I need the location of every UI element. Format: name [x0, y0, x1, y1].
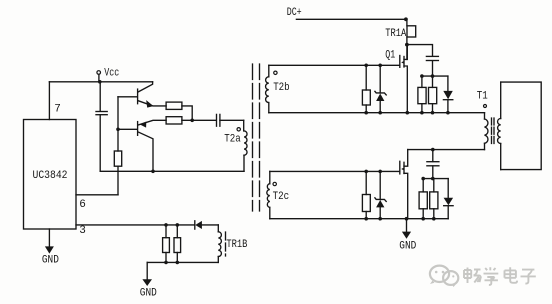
svg-text:T1: T1: [477, 91, 488, 103]
transformer TR1 core dashed line: [225, 232, 227, 256]
svg-text:TR1A: TR1A: [385, 28, 406, 40]
capacitor C1 Vcc decoupling: [96, 82, 107, 172]
svg-text:GND: GND: [42, 255, 59, 267]
wire TR1B bottom return: [147, 261, 218, 263]
transformer winding T2c: [267, 171, 270, 218]
wire mid rail Q2 drain to T1: [408, 149, 485, 151]
zener diode Z2 gate lower: [375, 171, 386, 218]
transformer winding TR1B: [218, 225, 221, 263]
node dot R6 bottom: [164, 261, 168, 265]
transformer T1 core dashed lines: [492, 118, 495, 144]
svg-text:T2c: T2c: [273, 191, 290, 203]
ground right section: [399, 219, 416, 253]
svg-text:DC+: DC+: [287, 7, 302, 19]
resistor R10 gate upper: [362, 65, 370, 112]
node T2a phase dot: [237, 128, 240, 131]
wire snubber2 top bar: [423, 178, 448, 180]
node DC+ junction dot: [404, 17, 408, 21]
transistor Q4 PNP lower driver: [138, 120, 167, 171]
svg-text:T2b: T2b: [273, 82, 290, 94]
node T1 phase dot: [484, 105, 487, 108]
wire lower base: [118, 128, 137, 130]
node snubber2 dot left: [421, 177, 425, 181]
resistor R3 base feed: [114, 97, 121, 195]
wire pin3 line: [76, 224, 194, 226]
svg-text:UC3842: UC3842: [33, 170, 68, 182]
svg-text:GND: GND: [399, 241, 416, 253]
node dots gate2 line: [364, 170, 382, 174]
op-amp U1 UC3842 controller IC box: [24, 120, 77, 230]
wire Vcc rail: [49, 81, 152, 83]
wire Vcc stub: [98, 74, 100, 81]
node dots gate line: [364, 64, 382, 68]
node dots lower rail: [364, 217, 435, 221]
resistor R5 lower drive: [166, 117, 216, 124]
transformer winding T2a primary: [244, 120, 247, 171]
wire lower ground rail: [270, 218, 448, 220]
transformer winding T1 secondary: [498, 82, 501, 170]
wire Q2 gate line: [270, 170, 400, 172]
node PNP collector dot on rail: [151, 170, 155, 174]
capacitor C4 snubber lower: [427, 150, 439, 179]
wire upper base: [118, 96, 137, 98]
zener diode Z1 gate upper: [375, 65, 386, 112]
svg-text:TR1B: TR1B: [226, 239, 247, 251]
capacitor C2 series coupling: [217, 114, 244, 126]
node drive junction dot: [190, 119, 194, 123]
transformer T2 core dashed lines: [253, 64, 260, 211]
node mid rail cap dot: [431, 148, 435, 152]
decorative watermark icon: [430, 266, 458, 287]
resistor R4 upper drive: [166, 102, 192, 120]
ground under TR1B return: [140, 262, 157, 299]
node T2c phase dot: [273, 182, 276, 185]
svg-text:6: 6: [79, 199, 86, 211]
diode D3 snubber lower: [444, 179, 454, 219]
transistor Q2 N-MOSFET lower: [400, 150, 408, 219]
svg-text:Q1: Q1: [385, 50, 395, 62]
diode D1 on pin3 line: [195, 221, 219, 229]
decorative watermark text: [464, 267, 536, 285]
wire bottom rail of driver to T2a: [100, 170, 244, 172]
resistor TR1A current sense primary: [407, 19, 416, 59]
svg-text:GND: GND: [140, 288, 157, 300]
resistor R8 snubber: [418, 76, 426, 113]
resistor R11 gate lower: [362, 171, 370, 218]
node dots upper rail: [364, 111, 449, 115]
node snubber dot left: [420, 74, 424, 78]
wire Q1 gate line: [269, 64, 400, 66]
svg-text:3: 3: [79, 225, 86, 237]
wire snubber top bar: [422, 75, 448, 77]
svg-text:7: 7: [54, 104, 61, 116]
node dot R7 bottom: [176, 261, 180, 265]
diode D2 snubber: [443, 76, 453, 113]
node snubber dot mid: [431, 74, 435, 78]
svg-text:Vcc: Vcc: [104, 68, 119, 80]
node dot R6 top: [164, 223, 168, 227]
capacitor C3 snubber upper: [426, 56, 438, 76]
resistor R13 snubber lower: [430, 179, 438, 219]
wire T1 output loop: [501, 82, 542, 170]
wire pin6 horizontal: [76, 194, 118, 196]
wire pin7 vertical to Vcc rail: [48, 82, 50, 120]
transformer winding T1 primary: [485, 113, 488, 150]
wire drain to snubber cap: [407, 45, 433, 57]
ground under UC3842: [42, 229, 59, 267]
node TR1A bottom junction dot: [405, 43, 409, 47]
wire DC+ rail: [296, 18, 406, 20]
node snubber2 dot mid: [431, 177, 435, 181]
resistor R12 snubber lower: [419, 179, 427, 219]
resistor R9 snubber: [429, 76, 437, 113]
transistor Q1 N-MOSFET: [385, 45, 407, 113]
node Vcc terminal circle: [97, 71, 101, 75]
node Vcc junction dot: [98, 80, 102, 84]
resistor R6: [163, 225, 170, 263]
svg-text:T2a: T2a: [224, 133, 241, 145]
node dot R7 top: [176, 223, 180, 227]
node base junction dot: [116, 128, 120, 132]
resistor R7: [174, 225, 181, 263]
wire upper source rail: [269, 112, 485, 114]
transformer winding T2b: [266, 65, 269, 112]
node T2b phase dot: [274, 71, 277, 74]
transistor Q3 NPN upper driver: [138, 82, 167, 108]
